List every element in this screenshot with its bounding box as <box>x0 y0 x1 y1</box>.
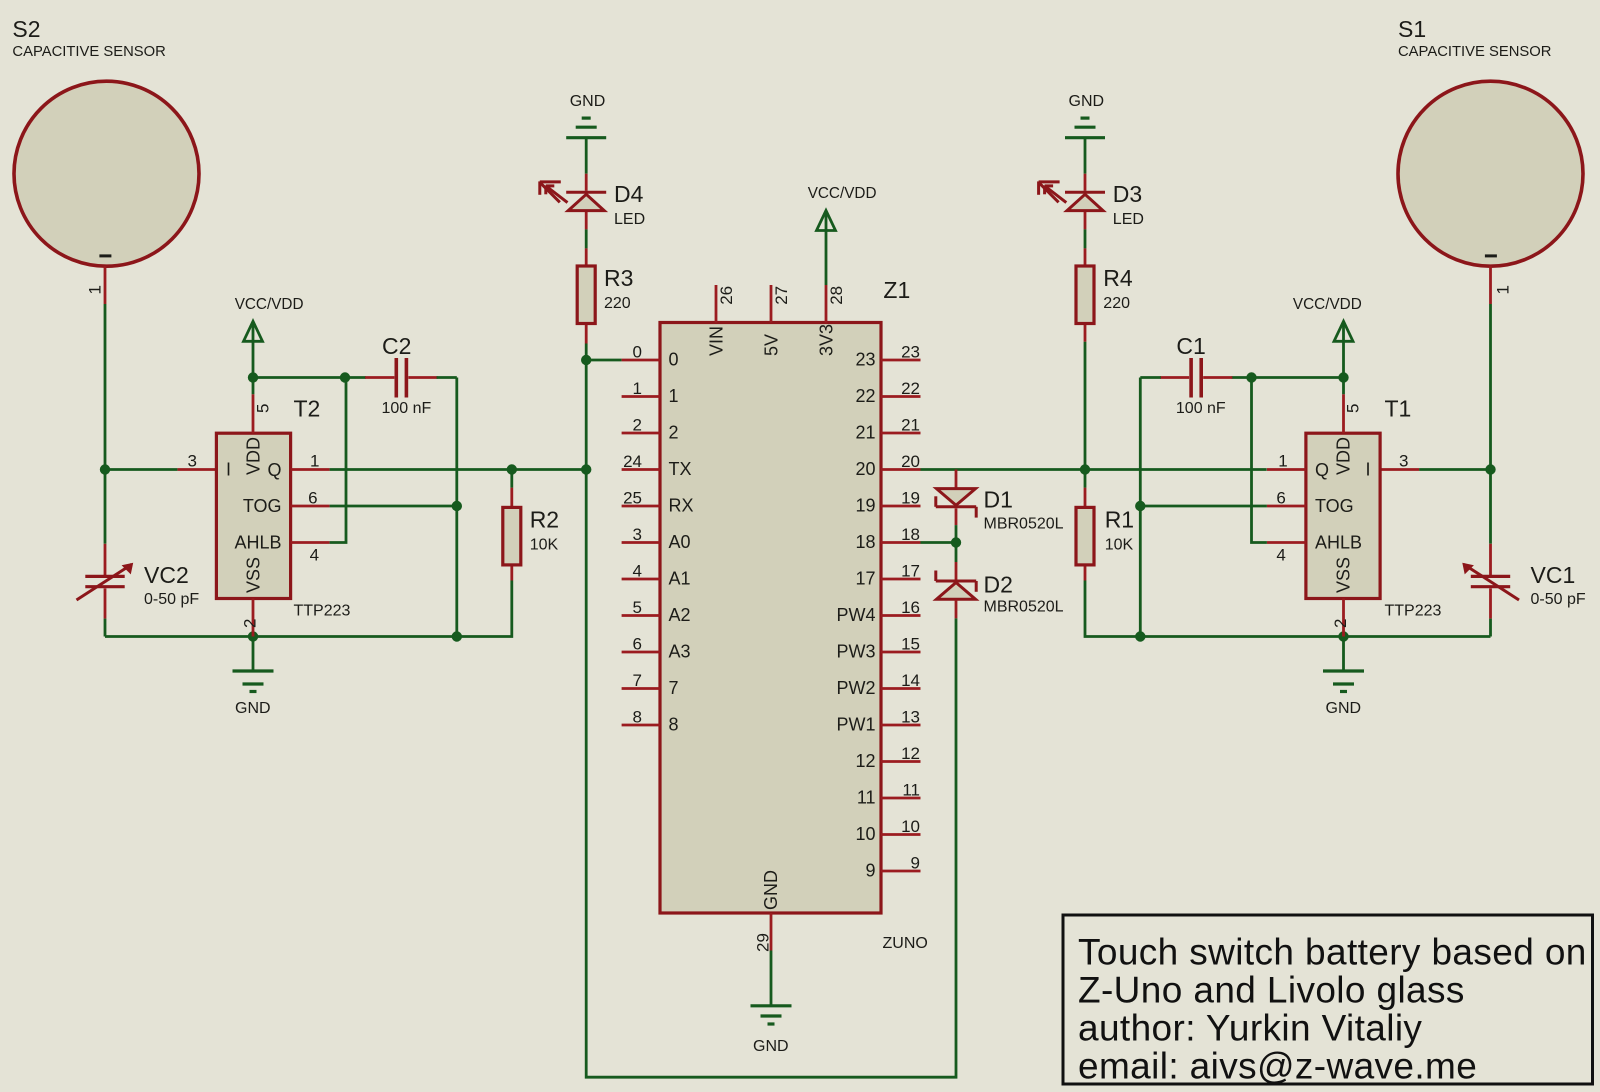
resistor R3 <box>577 265 633 324</box>
svg-text:AHLB: AHLB <box>234 532 281 552</box>
variable capacitor VC2 <box>77 544 200 619</box>
svg-text:D3: D3 <box>1113 181 1142 207</box>
wire R2 top to Q net <box>510 470 513 488</box>
svg-text:A2: A2 <box>669 605 691 625</box>
svg-text:12: 12 <box>855 751 875 771</box>
junction <box>1338 631 1348 641</box>
junction <box>452 631 462 641</box>
wire GND rail left <box>105 581 512 637</box>
svg-text:GND: GND <box>235 700 271 717</box>
Z1 left pin A2 (#5) <box>622 598 691 625</box>
svg-text:2: 2 <box>1331 619 1350 628</box>
svg-text:GND: GND <box>1069 93 1105 110</box>
svg-text:LED: LED <box>614 211 645 228</box>
svg-text:11: 11 <box>902 781 920 800</box>
svg-text:19: 19 <box>855 496 875 516</box>
ground above D4 <box>566 93 606 138</box>
diode D1 cathode stub <box>955 508 958 525</box>
svg-text:TTP223: TTP223 <box>294 603 351 620</box>
svg-text:PW1: PW1 <box>836 715 875 735</box>
wire VDD stub to rail <box>1342 378 1345 395</box>
IC T2 (TTP223) <box>216 396 350 620</box>
svg-text:9: 9 <box>865 861 875 881</box>
wire big loop bottom <box>586 470 956 1078</box>
Z1 left pin A0 (#3) <box>622 525 691 552</box>
svg-text:18: 18 <box>901 525 920 544</box>
resistor R1 stubs <box>1084 488 1087 581</box>
svg-text:14: 14 <box>901 671 920 690</box>
junction <box>507 464 517 474</box>
svg-text:3V3: 3V3 <box>817 324 837 356</box>
svg-text:VDD: VDD <box>1334 437 1354 475</box>
svg-text:C2: C2 <box>382 333 411 359</box>
svg-text:LED: LED <box>1113 211 1144 228</box>
svg-text:PW3: PW3 <box>836 642 875 662</box>
svg-text:GND: GND <box>753 1038 789 1055</box>
junction <box>1135 501 1145 511</box>
svg-text:4: 4 <box>633 562 642 581</box>
IC T2 pin 2 (VSS) stub <box>240 599 259 637</box>
Z1 right pin PW1 (#13) <box>836 708 920 735</box>
Z1 top pin VIN (#26) <box>707 285 737 356</box>
Z1 right pin 19 (#19) <box>855 489 920 516</box>
svg-text:20: 20 <box>855 459 875 479</box>
svg-text:I: I <box>1365 459 1370 479</box>
svg-text:220: 220 <box>604 295 631 312</box>
svg-text:28: 28 <box>827 286 846 305</box>
wire R1 top to pin20 net <box>1084 470 1087 488</box>
svg-text:D2: D2 <box>984 571 1013 597</box>
svg-text:A1: A1 <box>669 569 691 589</box>
junction <box>581 464 591 474</box>
wire GND rail right <box>1085 581 1491 637</box>
svg-text:10: 10 <box>901 817 920 836</box>
IC T2 pin 6 (TOG) stub <box>291 489 330 508</box>
junction <box>581 355 591 365</box>
Z1 top pin 5V (#27) <box>762 285 792 356</box>
svg-text:ZUNO: ZUNO <box>883 935 928 952</box>
Z1 left pin 0 (#0) <box>622 343 679 370</box>
IC Z1 (ZUNO) body <box>660 277 928 952</box>
svg-text:19: 19 <box>901 489 920 508</box>
svg-text:VSS: VSS <box>1334 557 1354 593</box>
wire vdd rail to C2 <box>345 376 366 379</box>
Z1 pin18 wire <box>921 541 957 544</box>
svg-text:10K: 10K <box>1105 536 1134 553</box>
power symbol VCC/VDD above Z1 (3V3) <box>808 185 877 285</box>
Z1 left pin 8 (#8) <box>622 708 679 735</box>
capacitor C1 <box>1160 333 1232 417</box>
svg-text:29: 29 <box>754 933 773 952</box>
resistor R2 stubs <box>510 488 513 581</box>
wire vdd rail T1 <box>1252 376 1344 379</box>
wire VDD stub to rail <box>252 378 255 395</box>
Z1 left pin TX (#24) <box>622 452 692 479</box>
svg-text:8: 8 <box>669 715 679 735</box>
svg-text:R4: R4 <box>1103 265 1133 291</box>
Z1 right pin 11 (#11) <box>857 781 921 808</box>
svg-text:VDD: VDD <box>244 437 264 475</box>
Z1 bottom pin GND (#29) <box>754 870 782 952</box>
wire node down to VC2 <box>104 470 107 544</box>
IC T1 pin 5 (VDD) stub <box>1344 394 1363 433</box>
svg-text:100 nF: 100 nF <box>382 400 432 417</box>
svg-text:A0: A0 <box>669 532 691 552</box>
wire AHLB to vdd rail <box>330 378 346 543</box>
svg-text:13: 13 <box>901 708 920 727</box>
svg-text:11: 11 <box>857 788 876 808</box>
LED D3 <box>1039 181 1144 228</box>
wire S1 pin1 to node <box>1489 304 1492 470</box>
junction <box>248 372 258 382</box>
diode D1 anode stub <box>955 470 958 489</box>
resistor R4 stubs <box>1084 248 1087 341</box>
Z1 right pin 23 (#23) <box>855 343 920 370</box>
svg-text:1: 1 <box>669 386 679 406</box>
capacitive sensor S2 <box>12 16 199 304</box>
LED D4 pin stubs <box>585 174 588 230</box>
svg-text:1: 1 <box>1278 452 1287 471</box>
junction <box>1080 464 1090 474</box>
Z1 left pin 2 (#2) <box>622 416 679 443</box>
svg-text:Touch switch battery based on: Touch switch battery based on <box>1078 931 1587 972</box>
svg-text:0: 0 <box>633 343 642 362</box>
IC T1 (TTP223) <box>1306 396 1442 620</box>
svg-text:MBR0520L: MBR0520L <box>984 516 1064 533</box>
svg-text:2: 2 <box>240 619 259 628</box>
diode D1 <box>936 487 1064 533</box>
svg-text:TTP223: TTP223 <box>1385 603 1442 620</box>
svg-text:16: 16 <box>901 598 920 617</box>
svg-text:0-50 pF: 0-50 pF <box>144 591 199 608</box>
resistor R2 <box>503 506 559 565</box>
junction <box>340 372 350 382</box>
svg-text:10: 10 <box>855 824 875 844</box>
Z1 left pin 1 (#1) <box>622 379 679 406</box>
svg-text:2: 2 <box>669 423 679 443</box>
wire vdd rail to C1 <box>1232 376 1252 379</box>
wire R4 to pin20 node <box>1084 342 1087 470</box>
svg-text:21: 21 <box>901 416 920 435</box>
svg-text:18: 18 <box>855 532 875 552</box>
IC T1 pin 6 (TOG) stub <box>1267 489 1306 508</box>
svg-text:2: 2 <box>633 416 642 435</box>
wire D3 to R4 <box>1084 229 1087 248</box>
svg-text:GND: GND <box>570 93 606 110</box>
IC T2 pin 3 stub <box>177 452 216 471</box>
ground below Z1 <box>751 1006 792 1055</box>
Z1 right pin PW2 (#14) <box>836 671 920 698</box>
wire gnd to D3 <box>1084 139 1087 174</box>
junction <box>452 501 462 511</box>
Z1 right pin 18 (#18) <box>855 525 920 552</box>
svg-text:T2: T2 <box>294 396 321 422</box>
LED D4 <box>540 181 645 228</box>
capacitive sensor S1 <box>1398 16 1583 304</box>
svg-text:12: 12 <box>901 744 920 763</box>
wire pin0 node to Z1 <box>586 359 621 362</box>
svg-text:VCC/VDD: VCC/VDD <box>808 185 877 202</box>
svg-text:20: 20 <box>901 452 920 471</box>
wire riser C1/TOG/GND <box>1139 378 1142 637</box>
svg-text:CAPACITIVE SENSOR: CAPACITIVE SENSOR <box>12 44 165 60</box>
svg-text:4: 4 <box>310 546 319 565</box>
capacitor C2 <box>365 333 437 417</box>
svg-text:R3: R3 <box>604 265 633 291</box>
Z1 right pin 21 (#21) <box>855 416 920 443</box>
ground below T1 <box>1323 637 1364 718</box>
svg-text:17: 17 <box>855 569 875 589</box>
Z1 left pin A3 (#6) <box>622 635 691 662</box>
wire node18 to D2 <box>955 543 958 563</box>
svg-text:PW2: PW2 <box>836 678 875 698</box>
svg-text:22: 22 <box>901 379 920 398</box>
svg-text:AHLB: AHLB <box>1315 532 1362 552</box>
svg-text:RX: RX <box>669 496 694 516</box>
IC T2 pin 4 (AHLB) stub <box>291 543 330 565</box>
variable capacitor VC1 <box>1462 544 1586 619</box>
Z1 right pin 9 (#9) <box>865 854 920 881</box>
power symbol VCC/VDD right (T1) <box>1293 296 1362 378</box>
wire riser C2/TOG/GND <box>455 378 458 637</box>
junction <box>1246 372 1256 382</box>
svg-text:TX: TX <box>669 459 692 479</box>
junction <box>1485 464 1495 474</box>
diode D2 anode stub <box>955 600 958 619</box>
svg-text:R1: R1 <box>1105 506 1134 532</box>
svg-text:3: 3 <box>1399 452 1408 471</box>
IC T2 pin 1 (Q) stub <box>291 452 330 471</box>
diode D2 <box>936 571 1064 616</box>
svg-text:Z1: Z1 <box>883 277 910 303</box>
Z1 right pin 22 (#22) <box>855 379 920 406</box>
svg-text:C1: C1 <box>1176 333 1205 359</box>
wire AHLB to vdd rail <box>1252 378 1267 543</box>
Z1 right pin 10 (#10) <box>855 817 920 844</box>
ground below T2 <box>233 637 274 718</box>
svg-text:author: Yurkin Vitaliy: author: Yurkin Vitaliy <box>1078 1007 1422 1048</box>
svg-text:23: 23 <box>901 343 920 362</box>
svg-text:4: 4 <box>1276 546 1285 565</box>
Z1 left pin RX (#25) <box>622 489 694 516</box>
svg-text:S1: S1 <box>1398 16 1426 42</box>
wire pin29 to gnd <box>770 951 773 1006</box>
junction <box>100 464 110 474</box>
svg-text:10K: 10K <box>530 536 559 553</box>
wire TOG to riser <box>1140 505 1267 508</box>
junction <box>1135 631 1145 641</box>
wire Q net to R2/loop <box>330 468 587 471</box>
wire C2 right to riser <box>437 376 457 379</box>
svg-text:1: 1 <box>1494 285 1513 294</box>
wire VC2 to GND rail <box>104 619 107 637</box>
svg-text:100 nF: 100 nF <box>1176 400 1226 417</box>
junction <box>951 537 961 547</box>
IC T1 pin 2 (VSS) stub <box>1331 599 1350 637</box>
svg-text:5: 5 <box>1344 404 1363 413</box>
wire VC1 to GND rail <box>1489 619 1492 637</box>
svg-text:5: 5 <box>633 598 642 617</box>
IC T1 pin 4 (AHLB) stub <box>1267 543 1306 565</box>
svg-text:6: 6 <box>1276 489 1285 508</box>
svg-text:PW4: PW4 <box>836 605 875 625</box>
svg-text:GND: GND <box>761 870 781 910</box>
svg-text:Q: Q <box>267 460 281 480</box>
Z1 right pin 17 (#17) <box>855 562 920 589</box>
svg-text:24: 24 <box>623 452 642 471</box>
Z1 right pin PW4 (#16) <box>836 598 920 625</box>
svg-text:Q: Q <box>1315 460 1329 480</box>
svg-text:1: 1 <box>310 452 319 471</box>
svg-text:T1: T1 <box>1385 396 1412 422</box>
svg-text:17: 17 <box>901 562 920 581</box>
svg-text:15: 15 <box>901 635 920 654</box>
Z1 top pin 3V3 (#28) <box>817 285 847 356</box>
svg-text:26: 26 <box>717 286 736 305</box>
svg-text:1: 1 <box>85 285 104 294</box>
svg-text:TOG: TOG <box>1315 496 1354 516</box>
wire D1 to node18 <box>955 525 958 542</box>
Z1 right pin 12 (#12) <box>855 744 920 771</box>
IC T1 pin 1 (Q) stub <box>1267 452 1306 471</box>
svg-text:8: 8 <box>633 708 642 727</box>
svg-text:GND: GND <box>1326 700 1362 717</box>
wire pin20 to T1 Q <box>921 468 1267 471</box>
svg-text:D1: D1 <box>984 487 1013 513</box>
power symbol VCC/VDD left (T2) <box>235 296 304 378</box>
svg-text:email: aivs@z-wave.me: email: aivs@z-wave.me <box>1078 1045 1477 1086</box>
svg-text:22: 22 <box>855 386 875 406</box>
IC T1 pin 3 stub <box>1380 452 1419 471</box>
Z1 left pin A1 (#4) <box>622 562 691 589</box>
wire S2 node to T2 pin3 <box>105 468 177 471</box>
svg-text:9: 9 <box>911 854 920 873</box>
svg-text:3: 3 <box>188 452 197 471</box>
svg-text:5V: 5V <box>762 334 782 356</box>
diode D2 cathode stub <box>955 562 958 580</box>
title text box <box>1063 915 1593 1086</box>
svg-text:A3: A3 <box>669 642 691 662</box>
svg-text:D4: D4 <box>614 181 644 207</box>
svg-text:R2: R2 <box>530 506 559 532</box>
wire gnd to D4 <box>585 139 588 174</box>
wire node down to VC1 <box>1489 470 1492 544</box>
svg-text:VSS: VSS <box>244 557 264 593</box>
resistor R1 <box>1076 506 1134 565</box>
svg-text:0-50 pF: 0-50 pF <box>1531 591 1586 608</box>
svg-text:0: 0 <box>669 350 679 370</box>
svg-text:TOG: TOG <box>243 496 282 516</box>
svg-text:CAPACITIVE SENSOR: CAPACITIVE SENSOR <box>1398 44 1551 60</box>
svg-text:21: 21 <box>855 423 875 443</box>
svg-text:7: 7 <box>669 678 679 698</box>
svg-text:27: 27 <box>772 286 791 305</box>
svg-text:25: 25 <box>623 489 642 508</box>
junction <box>248 631 258 641</box>
resistor R3 stubs <box>585 248 588 343</box>
svg-text:6: 6 <box>633 635 642 654</box>
junction <box>1338 372 1348 382</box>
svg-text:7: 7 <box>633 671 642 690</box>
svg-text:VC2: VC2 <box>144 562 189 588</box>
wire TOG to riser <box>330 505 457 508</box>
wire C1 left to riser <box>1140 376 1161 379</box>
svg-text:6: 6 <box>308 489 317 508</box>
svg-text:220: 220 <box>1103 295 1130 312</box>
svg-text:Z-Uno and Livolo glass: Z-Uno and Livolo glass <box>1078 969 1465 1010</box>
svg-text:VCC/VDD: VCC/VDD <box>1293 296 1362 313</box>
svg-text:VC1: VC1 <box>1531 562 1576 588</box>
ground above D3 <box>1065 93 1105 138</box>
wire vdd rail T2 <box>253 376 345 379</box>
wire long loop down <box>585 360 588 470</box>
wire R3 to pin0 node <box>585 344 588 361</box>
svg-text:S2: S2 <box>12 16 40 42</box>
IC T2 pin 5 (VDD) stub <box>253 394 273 433</box>
svg-text:VCC/VDD: VCC/VDD <box>235 296 304 313</box>
wire D4 to R3 <box>585 229 588 248</box>
wire S2 pin1 to node <box>104 304 107 470</box>
svg-text:I: I <box>226 459 231 479</box>
svg-text:MBR0520L: MBR0520L <box>984 599 1064 616</box>
Z1 left pin 7 (#7) <box>622 671 679 698</box>
svg-text:1: 1 <box>633 379 642 398</box>
svg-text:3: 3 <box>633 525 642 544</box>
Z1 right pin 20 (#20) <box>855 452 920 479</box>
resistor R4 <box>1076 265 1133 324</box>
svg-text:VIN: VIN <box>707 326 727 356</box>
svg-text:23: 23 <box>855 350 875 370</box>
svg-text:5: 5 <box>254 404 273 413</box>
Z1 right pin PW3 (#15) <box>836 635 920 662</box>
LED D3 pin stubs <box>1084 174 1087 230</box>
wire S1 node to T1 pin3 <box>1419 468 1490 471</box>
